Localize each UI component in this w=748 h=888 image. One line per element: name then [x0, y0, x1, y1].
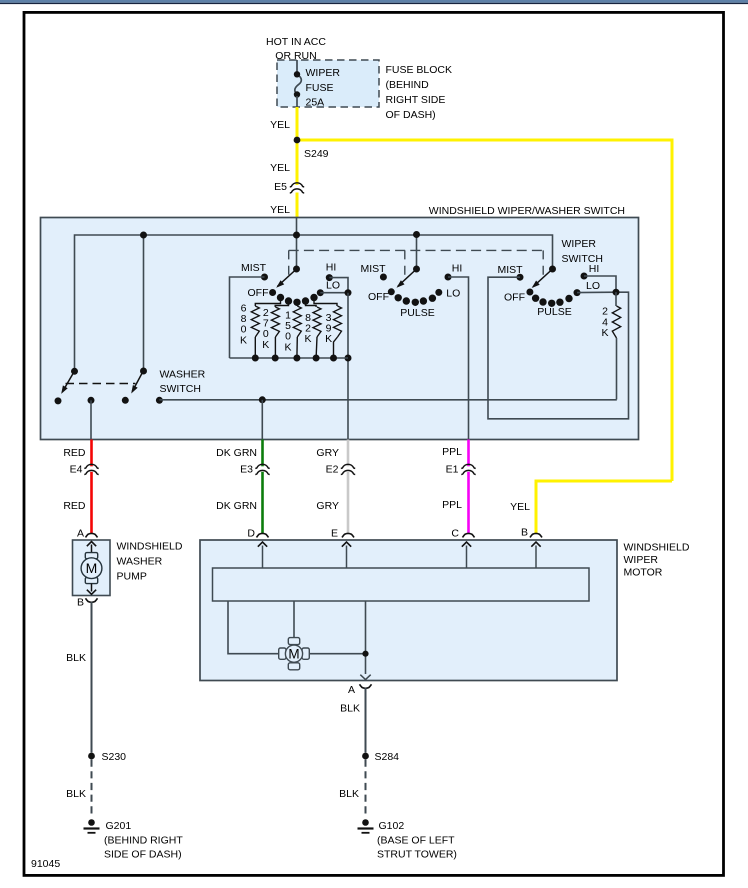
label YEL 4 — [510, 501, 530, 513]
wire LO S3 right — [577, 291, 616, 293]
pump motor M — [81, 553, 102, 584]
wire BLK dashed to G102 — [365, 760, 367, 819]
wire YEL E5 to switch box — [296, 193, 299, 219]
terminal B pump — [77, 597, 98, 609]
svg-text:K: K — [304, 333, 311, 345]
svg-text:E5: E5 — [274, 181, 287, 193]
svg-text:PULSE: PULSE — [537, 306, 571, 318]
svg-text:K: K — [262, 339, 269, 351]
connector E3 — [240, 464, 270, 476]
svg-text:BLK: BLK — [66, 788, 86, 800]
mechanical link (dashed) — [289, 250, 544, 281]
svg-text:A: A — [77, 528, 84, 540]
contact MIST S1 — [241, 262, 268, 281]
svg-text:RIGHT SIDE: RIGHT SIDE — [386, 94, 446, 106]
label 24K — [601, 306, 608, 340]
wire top bus — [75, 235, 553, 371]
svg-text:S284: S284 — [375, 751, 400, 763]
svg-text:RED: RED — [63, 447, 86, 459]
svg-text:K: K — [240, 334, 247, 346]
svg-text:DK GRN: DK GRN — [216, 447, 257, 459]
wire 24K top — [615, 292, 617, 306]
svg-text:C: C — [451, 528, 459, 540]
label YEL 3 — [270, 204, 290, 216]
wire R1 top — [255, 298, 280, 307]
wire R5 top — [314, 298, 337, 307]
wire BLK motor — [365, 688, 367, 753]
contact OFF S3 — [504, 289, 533, 304]
pump arrow down — [87, 584, 96, 595]
svg-text:S230: S230 — [102, 751, 127, 763]
ground G201 — [84, 819, 132, 833]
svg-text:PPL: PPL — [442, 499, 462, 511]
label BLK pump 2 — [66, 788, 86, 800]
wire RED upper — [90, 440, 93, 467]
svg-text:BLK: BLK — [66, 652, 86, 664]
label RED 1 — [63, 447, 86, 459]
svg-text:S249: S249 — [304, 148, 329, 160]
svg-text:B: B — [521, 527, 528, 539]
label DK GRN 2 — [216, 500, 257, 512]
svg-text:E2: E2 — [326, 464, 339, 476]
wire 24K bottom — [616, 338, 618, 400]
wire motor left drop — [228, 601, 279, 654]
wire motor mid drop — [293, 601, 295, 638]
svg-text:K: K — [601, 327, 608, 339]
fuse element WIPER FUSE 25A — [294, 71, 302, 98]
wire BLK pump — [91, 602, 93, 753]
wire fuse bottom stub — [296, 96, 298, 107]
wire DK GRN drop in box — [261, 400, 263, 440]
svg-text:E3: E3 — [240, 464, 253, 476]
svg-text:YEL: YEL — [270, 204, 290, 216]
svg-text:K: K — [284, 341, 291, 353]
label 82K — [304, 312, 311, 345]
svg-text:GRY: GRY — [316, 500, 339, 512]
svg-text:LO: LO — [446, 288, 460, 300]
svg-text:YEL: YEL — [270, 162, 290, 174]
svg-text:E4: E4 — [70, 464, 83, 476]
label WIPER FUSE 25A — [306, 67, 341, 109]
contact LO S1 — [317, 280, 340, 297]
svg-text:STRUT TOWER): STRUT TOWER) — [377, 849, 457, 861]
wire DK GRN lower — [261, 472, 264, 534]
washer contact row out — [156, 397, 163, 404]
fuse block box (dashed) — [277, 60, 379, 107]
terminal B motor — [521, 527, 542, 539]
contact MIST S3 — [497, 264, 523, 281]
contact OFF S2 — [368, 288, 395, 303]
diagram number 91045 — [31, 858, 60, 870]
label DK GRN 1 — [216, 447, 257, 459]
svg-text:OFF: OFF — [368, 291, 389, 303]
junction bus switch1 — [293, 232, 300, 239]
switch arm S3 — [532, 266, 556, 289]
label WINDSHIELD WIPER MOTOR — [624, 542, 690, 579]
contact LO S3 — [574, 280, 601, 296]
wire YEL S249 to right — [297, 139, 672, 142]
junction bus washer — [140, 232, 147, 239]
svg-text:E1: E1 — [446, 464, 459, 476]
wire YEL to motor B — [536, 481, 672, 534]
contact arc S3 PULSE — [532, 295, 573, 319]
label WINDSHIELD WIPER/WASHER SWITCH — [429, 205, 625, 217]
label G201 location — [104, 835, 183, 861]
svg-text:91045: 91045 — [31, 858, 60, 870]
contact MIST S2 — [360, 263, 386, 281]
wire R4 top — [306, 301, 317, 307]
junction bus switch2 — [413, 231, 420, 238]
wire HI S3 right — [584, 276, 616, 292]
motor exit arrow A — [360, 675, 370, 680]
label BLK pump — [66, 652, 86, 664]
wire resistor bottom bus — [230, 357, 349, 359]
svg-text:YEL: YEL — [510, 501, 530, 513]
svg-text:(BASE OF LEFT: (BASE OF LEFT — [377, 835, 455, 847]
svg-text:PUMP: PUMP — [117, 571, 147, 583]
wire MIST S3 loop — [488, 277, 629, 419]
svg-text:M: M — [86, 560, 98, 576]
wire YEL S249 to E5 — [296, 140, 299, 185]
svg-text:WINDSHIELD: WINDSHIELD — [624, 542, 690, 554]
svg-text:PPL: PPL — [442, 446, 462, 458]
svg-text:HI: HI — [452, 263, 463, 275]
contact HI S2 — [445, 263, 463, 281]
wiper motor M — [279, 638, 310, 670]
svg-text:YEL: YEL — [270, 119, 290, 131]
svg-text:RED: RED — [63, 500, 86, 512]
washer contact 3 — [122, 397, 129, 404]
svg-text:E: E — [331, 528, 338, 540]
svg-text:25A: 25A — [306, 97, 325, 109]
wire RED lower — [90, 472, 93, 534]
resistor 150K — [293, 306, 301, 362]
label 680K — [240, 303, 247, 347]
label YEL 2 — [270, 162, 290, 174]
contact arc S1 — [277, 294, 318, 306]
windshield wiper motor box — [200, 540, 617, 681]
contact arc S2 PULSE — [395, 294, 437, 319]
label GRY 2 — [316, 500, 339, 512]
wire GRY upper — [347, 440, 350, 467]
svg-text:G201: G201 — [106, 820, 132, 832]
contact HI S3 — [581, 263, 600, 280]
wire R3 top — [296, 302, 298, 306]
motor terminal arrow C — [462, 542, 471, 568]
wire BLK dashed to G201 — [91, 760, 93, 819]
svg-text:LO: LO — [326, 280, 340, 292]
label RED 2 — [63, 500, 86, 512]
motor terminal arrow B — [531, 542, 540, 568]
svg-text:MIST: MIST — [497, 264, 523, 276]
svg-text:OR RUN: OR RUN — [275, 50, 316, 62]
junction LO/HI S1 — [345, 289, 352, 296]
motor terminal arrow E — [342, 542, 351, 568]
wire GRY vertical — [347, 293, 349, 440]
svg-text:(BEHIND RIGHT: (BEHIND RIGHT — [104, 835, 183, 847]
svg-text:WIPER: WIPER — [306, 67, 341, 79]
svg-text:HI: HI — [326, 262, 337, 274]
svg-text:OFF: OFF — [504, 292, 525, 304]
connector E5 — [274, 181, 304, 193]
terminal C motor — [451, 528, 474, 540]
label 150K — [284, 310, 291, 354]
terminal D motor — [247, 528, 268, 540]
label YEL 1 — [270, 119, 290, 131]
windshield wiper/washer switch box — [41, 218, 639, 440]
connector E1 — [446, 464, 476, 476]
wire HI S1 right — [329, 278, 348, 293]
svg-text:SIDE OF DASH): SIDE OF DASH) — [104, 849, 182, 861]
svg-text:MIST: MIST — [241, 262, 267, 274]
svg-text:HOT IN ACC: HOT IN ACC — [266, 36, 326, 48]
wire YEL fuse to S249 — [296, 107, 299, 140]
contact OFF S1 — [248, 287, 277, 299]
label PPL 1 — [442, 446, 462, 458]
ground G102 — [358, 819, 405, 833]
resistor 24K — [612, 306, 620, 338]
label 39K — [325, 312, 332, 345]
label HOT IN ACC OR RUN — [266, 36, 326, 62]
wire PPL lower — [467, 472, 470, 534]
junction DK GRN drop — [259, 396, 266, 403]
svg-text:FUSE BLOCK: FUSE BLOCK — [386, 64, 453, 76]
terminal E motor — [331, 528, 354, 540]
washer link (dashed) — [66, 383, 136, 385]
svg-text:MIST: MIST — [360, 263, 386, 275]
svg-text:BLK: BLK — [339, 788, 359, 800]
splice S284 — [362, 751, 399, 763]
washer contact 1 — [55, 397, 62, 404]
svg-text:WIPER: WIPER — [562, 238, 597, 250]
wire RED drop in box — [90, 400, 92, 439]
terminal A pump — [77, 528, 98, 540]
svg-text:OFF: OFF — [248, 287, 269, 299]
wire GRY lower — [347, 472, 350, 534]
label GRY 1 — [316, 447, 339, 459]
wire DK GRN upper — [261, 440, 264, 467]
page top browser bar — [0, 0, 748, 4]
svg-text:WINDSHIELD WIPER/WASHER SWITCH: WINDSHIELD WIPER/WASHER SWITCH — [429, 205, 625, 217]
wire motor right drop — [365, 601, 367, 674]
terminal A motor — [348, 684, 372, 696]
motor terminal arrow D — [258, 542, 267, 568]
contact LO S2 — [435, 288, 460, 300]
svg-text:A: A — [348, 684, 355, 696]
svg-text:K: K — [325, 333, 332, 345]
svg-text:BLK: BLK — [340, 703, 360, 715]
switch arm S2 — [397, 266, 421, 288]
label BLK motor 2 — [339, 788, 359, 800]
svg-text:(BEHIND: (BEHIND — [386, 79, 430, 91]
wire MIST S1 left — [230, 277, 265, 358]
pump arrow up — [87, 542, 96, 555]
washer contact RED out — [88, 397, 95, 404]
resistor 82K — [313, 307, 321, 362]
svg-text:D: D — [247, 528, 255, 540]
svg-text:SWITCH: SWITCH — [160, 383, 201, 395]
junction S3 24K — [613, 289, 620, 296]
svg-text:G102: G102 — [379, 820, 405, 832]
svg-text:GRY: GRY — [316, 447, 339, 459]
washer switch arm 1 — [61, 368, 78, 394]
junction motor out — [362, 651, 368, 657]
wire HI S2 to PPL — [448, 277, 469, 440]
windshield washer pump box — [73, 540, 111, 596]
svg-text:WINDSHIELD: WINDSHIELD — [117, 541, 183, 553]
splice S230 — [88, 751, 126, 763]
resistor 270K — [271, 307, 279, 362]
label 270K — [262, 307, 269, 351]
wire R2 top — [275, 301, 288, 307]
wire LO S1 right — [320, 292, 348, 294]
connector E4 — [70, 464, 99, 476]
wire fuse top stub — [296, 60, 298, 72]
label FUSE BLOCK (BEHIND RIGHT SIDE OF DASH) — [386, 64, 453, 121]
wire switch1 feed — [296, 218, 298, 270]
switch arm S1 — [276, 266, 300, 288]
motor inner block — [213, 568, 590, 601]
svg-text:MOTOR: MOTOR — [624, 567, 663, 579]
wire washer row — [159, 399, 616, 401]
label WASHER SWITCH — [160, 369, 206, 396]
svg-text:HI: HI — [589, 263, 600, 275]
label PPL 2 — [442, 499, 462, 511]
svg-text:M: M — [288, 647, 299, 662]
svg-text:WIPER: WIPER — [624, 554, 659, 566]
wire YEL right vertical — [671, 139, 674, 482]
svg-text:FUSE: FUSE — [306, 82, 334, 94]
wire washer arm2 feed — [143, 235, 145, 371]
wire PPL upper — [467, 440, 470, 467]
label WIPER SWITCH — [562, 238, 603, 265]
resistor 39K — [330, 306, 342, 362]
resistor 680K — [251, 306, 259, 362]
wire motor link — [309, 653, 366, 655]
splice S249 — [294, 137, 329, 160]
connector E2 — [326, 464, 356, 476]
svg-text:PULSE: PULSE — [400, 307, 434, 319]
washer switch arm 2 — [131, 368, 147, 394]
svg-text:DK GRN: DK GRN — [216, 500, 257, 512]
junction resistor bus right — [345, 355, 352, 362]
svg-text:WASHER: WASHER — [160, 369, 206, 381]
label BLK motor — [340, 703, 360, 715]
contact HI S1 — [326, 262, 337, 282]
svg-text:WASHER: WASHER — [117, 556, 163, 568]
svg-text:LO: LO — [586, 280, 600, 292]
svg-text:B: B — [77, 597, 84, 609]
label G102 location — [377, 835, 457, 861]
wire switch2 feed — [416, 234, 418, 269]
label WINDSHIELD WASHER PUMP — [117, 541, 183, 583]
svg-text:OF DASH): OF DASH) — [386, 109, 436, 121]
